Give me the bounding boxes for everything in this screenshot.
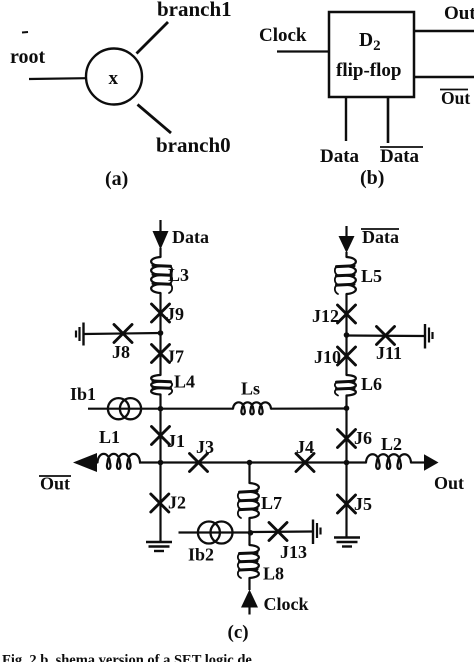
svg-text:(c): (c) [228, 622, 249, 643]
svg-text:Clock: Clock [264, 594, 309, 614]
svg-text:branch0: branch0 [156, 133, 231, 157]
svg-text:L6: L6 [361, 374, 382, 394]
svg-text:Out: Out [441, 88, 470, 108]
svg-text:J2: J2 [168, 493, 186, 513]
svg-text:J3: J3 [196, 437, 214, 457]
svg-text:Data: Data [320, 146, 360, 167]
svg-text:L8: L8 [263, 564, 284, 584]
svg-text:root: root [10, 46, 46, 68]
svg-text:J11: J11 [376, 343, 402, 363]
svg-text:Data: Data [362, 227, 399, 247]
svg-text:Ls: Ls [241, 379, 260, 399]
svg-text:(b): (b) [360, 167, 384, 189]
svg-text:L4: L4 [174, 372, 195, 392]
svg-text:J4: J4 [296, 437, 314, 457]
svg-text:L3: L3 [168, 265, 189, 285]
svg-text:J1: J1 [167, 431, 185, 451]
svg-text:L1: L1 [99, 427, 120, 447]
svg-text:L2: L2 [381, 434, 402, 454]
svg-text:J6: J6 [354, 428, 372, 448]
svg-text:J5: J5 [354, 494, 372, 514]
svg-text:x: x [109, 68, 119, 89]
svg-text:L7: L7 [261, 493, 282, 513]
svg-text:L5: L5 [361, 266, 382, 286]
svg-text:J13: J13 [280, 542, 307, 562]
svg-text:Data: Data [172, 227, 209, 247]
svg-text:Fig. 2 b. shema version of a S: Fig. 2 b. shema version of a SET logic d… [2, 653, 252, 662]
svg-text:Ib1: Ib1 [70, 384, 96, 404]
svg-text:Clock: Clock [259, 25, 307, 46]
svg-text:J7: J7 [166, 347, 184, 367]
svg-text:(a): (a) [105, 168, 128, 190]
svg-text:J9: J9 [166, 304, 184, 324]
svg-text:Out: Out [444, 3, 474, 24]
svg-text:J10: J10 [314, 347, 341, 367]
svg-text:branch1: branch1 [157, 0, 232, 21]
svg-text:flip-flop: flip-flop [336, 60, 401, 81]
svg-text:J12: J12 [312, 306, 339, 326]
svg-text:Out: Out [434, 473, 464, 493]
svg-text:Ib2: Ib2 [188, 545, 214, 565]
svg-text:Data: Data [380, 146, 420, 167]
svg-text:J8: J8 [112, 342, 130, 362]
